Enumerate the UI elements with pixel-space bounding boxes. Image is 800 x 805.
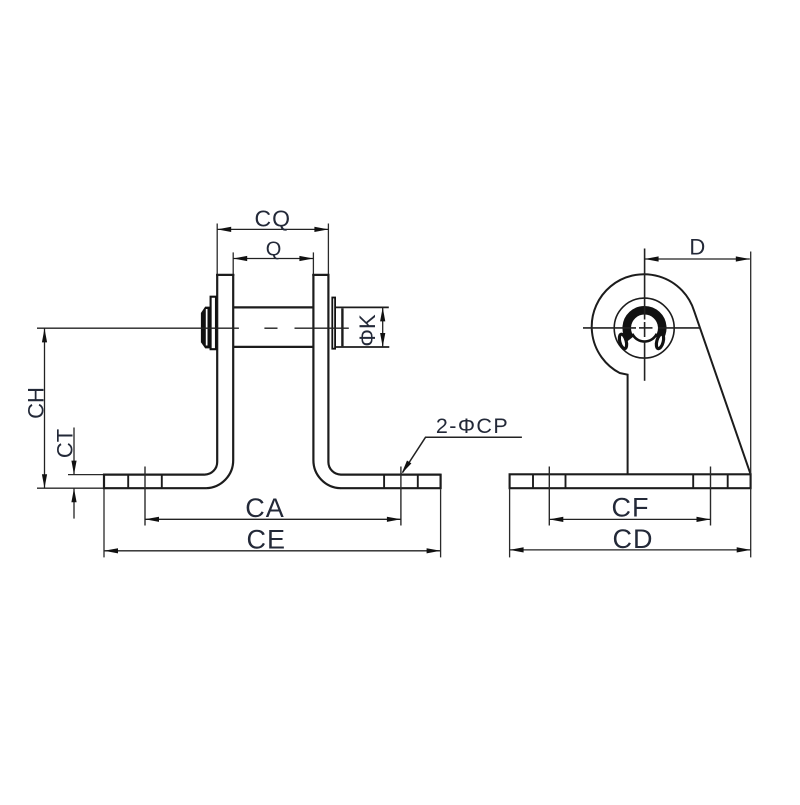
E-ring left lobe [618, 333, 628, 349]
left ear top edge [216, 274, 234, 276]
pin top edge [233, 306, 313, 308]
left ear outer edge [216, 224, 218, 276]
left ear inner edge [232, 252, 234, 275]
left ear inner fillet [206, 460, 233, 488]
left hole centerline (side view) [548, 467, 550, 526]
left ear outer fillet [205, 462, 218, 475]
counterbore circle [614, 298, 674, 358]
base bottom surface right [340, 487, 440, 489]
svg-text:CF: CF [612, 493, 650, 523]
left hole centerline [144, 467, 146, 526]
base right end face [440, 474, 442, 490]
pin left end cap [201, 307, 210, 349]
left retaining washer [211, 297, 216, 350]
dimension CT [73, 428, 75, 475]
right ear top edge [312, 274, 329, 276]
dimension CF [549, 518, 710, 520]
base bottom surface left [37, 487, 104, 489]
right ear outer fillet [328, 462, 341, 475]
svg-text:ΦK: ΦK [355, 314, 380, 347]
body outline with boss and gusset [592, 274, 751, 474]
CD left extension [509, 488, 511, 557]
right retaining washer [332, 298, 335, 349]
pin hole bottom arc [632, 334, 656, 342]
dimension Q [233, 258, 313, 260]
CE right extension [440, 489, 442, 557]
dimension PhiK [382, 307, 384, 347]
base plate [510, 474, 751, 488]
right hole centerline [400, 467, 402, 526]
D / CD right extension [750, 252, 752, 475]
E-ring right lobe [655, 333, 665, 349]
boss vertical centerline [644, 249, 646, 320]
boss horizontal centerline [583, 327, 636, 329]
leader 2-PhiCP [403, 437, 522, 472]
svg-text:CE: CE [247, 525, 287, 555]
base top surface left [68, 474, 104, 476]
base left end face [103, 474, 105, 490]
dimension CH [44, 328, 46, 488]
pin bottom edge [233, 346, 313, 348]
right hole centerline (side view) [710, 467, 712, 526]
base top surface right [341, 474, 441, 476]
pin right end face [341, 308, 343, 346]
svg-text:CD: CD [613, 524, 654, 554]
svg-text:CT: CT [52, 429, 77, 458]
right hole edges (side view) [692, 474, 694, 488]
E-ring retaining clip body [627, 310, 663, 339]
left hole edges (side view) [532, 474, 534, 488]
right ear inner fillet [313, 460, 340, 488]
dimension CE [104, 550, 441, 552]
dimension D [645, 258, 750, 260]
dimension CA [145, 518, 401, 520]
dimension CQ [217, 228, 328, 230]
svg-text:2-ΦCP: 2-ΦCP [436, 414, 509, 438]
svg-text:Q: Q [266, 239, 282, 261]
right ear inner edge [312, 252, 314, 275]
svg-text:CQ: CQ [255, 206, 292, 232]
right ear outer edge [327, 224, 329, 276]
pin right end stub top [336, 306, 389, 308]
pin centerline [37, 327, 239, 329]
right hole edges [383, 475, 385, 489]
svg-text:CH: CH [24, 387, 49, 419]
dimension CD [510, 549, 751, 551]
pin right end stub bottom [336, 346, 390, 348]
left hole edges [127, 475, 129, 489]
svg-text:D: D [689, 235, 705, 260]
svg-text:CA: CA [245, 493, 285, 523]
CE left extension [103, 489, 105, 557]
